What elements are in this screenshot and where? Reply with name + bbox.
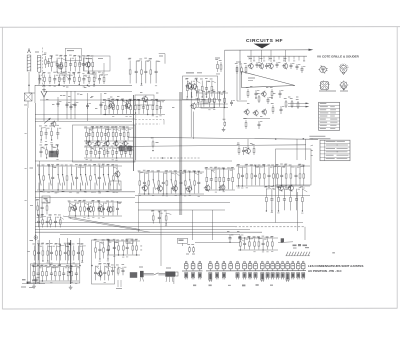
loopstick coil band bbox=[286, 252, 288, 256]
tube row baseline bbox=[182, 270, 203, 272]
input block box bbox=[135, 95, 154, 105]
wire bus y229 bbox=[35, 229, 250, 231]
AF band left bbox=[37, 164, 122, 193]
tube V14 bbox=[272, 261, 274, 263]
right sub lower bbox=[264, 186, 307, 214]
transistor Q1 bbox=[249, 64, 254, 69]
svg-text:CIRCUITS HF: CIRCUITS HF bbox=[246, 38, 283, 44]
HF mid parts bbox=[246, 86, 284, 104]
table area stubs bbox=[311, 139, 314, 156]
tube V16 bbox=[282, 261, 284, 263]
bottom left feeder parts bbox=[32, 243, 85, 264]
top band labels bbox=[52, 87, 214, 110]
dot j3 bbox=[162, 157, 164, 159]
pictogram P4 bbox=[341, 82, 347, 88]
tube V2 bbox=[192, 261, 194, 263]
left long wire x27 bbox=[27, 108, 29, 283]
wire bus y107 bbox=[196, 103, 228, 105]
socket S6 bbox=[222, 273, 225, 278]
table legend bbox=[320, 140, 350, 161]
page bottom edge bbox=[2, 307, 397, 310]
left margin labels bbox=[30, 168, 34, 169]
wire vert x161drop bbox=[160, 210, 162, 266]
I1 feet bbox=[117, 280, 119, 287]
cluster I1 upper bbox=[107, 239, 140, 258]
wire top left junction bbox=[29, 92, 35, 94]
wire HF top feed bbox=[225, 49, 309, 51]
dot j1 bbox=[275, 138, 277, 140]
wire vert x67 bbox=[66, 91, 68, 119]
feeder verticals bbox=[38, 238, 80, 264]
osc cap branch bbox=[223, 100, 235, 127]
socket S1 bbox=[185, 273, 188, 278]
wire vert x58 bbox=[57, 97, 59, 121]
left col lower2 bbox=[37, 214, 64, 227]
mixer out box bbox=[201, 101, 214, 108]
wire osc out bbox=[195, 241, 240, 243]
wire vert x193 bbox=[192, 112, 194, 140]
left col parts2 bbox=[40, 144, 59, 160]
small text above tables bbox=[319, 91, 336, 92]
bottom gnd2 bbox=[70, 285, 72, 287]
tube V20 bbox=[302, 261, 304, 263]
IF block row2 bbox=[84, 145, 134, 161]
wire bus y203 bbox=[135, 202, 230, 204]
left small box bbox=[42, 196, 50, 203]
HF bottom parts bbox=[243, 103, 284, 129]
wire vert x212drop bbox=[212, 210, 214, 240]
left col parts bbox=[39, 125, 61, 143]
wire vert x39 bbox=[39, 161, 41, 284]
tube V15 bbox=[277, 261, 279, 263]
junction dots row bbox=[37, 264, 93, 266]
wire bus y197 bbox=[35, 197, 135, 199]
wire bus y222 bbox=[35, 222, 303, 224]
wire bus y234 bbox=[60, 234, 240, 236]
left tick marks bbox=[140, 245, 142, 248]
tube V18 bbox=[292, 261, 294, 263]
wire vert x224 feed bbox=[224, 50, 226, 104]
antenna bbox=[41, 91, 47, 97]
tone column bbox=[217, 61, 219, 64]
top section right parts bbox=[128, 58, 160, 86]
wire vert x191 bbox=[190, 92, 192, 137]
socket S5 bbox=[216, 273, 219, 278]
diamond part bbox=[34, 236, 38, 240]
crystal box bbox=[24, 93, 32, 101]
hf left resistors bbox=[235, 62, 247, 75]
tube V4 bbox=[209, 261, 211, 263]
wire bus y161 bbox=[35, 160, 232, 162]
slant wire 1 bbox=[63, 216, 140, 230]
wire vert x192drop bbox=[192, 210, 194, 240]
wire vert x275 drop bbox=[275, 185, 277, 223]
chassis connector bbox=[140, 271, 144, 277]
arrow under title bbox=[254, 44, 271, 49]
wire vert x75 bbox=[74, 91, 76, 119]
terminal cluster BL bbox=[21, 277, 45, 288]
IF block row1 bbox=[84, 126, 133, 144]
arrowhead right bbox=[309, 49, 314, 51]
wire bus y232 bbox=[35, 231, 262, 233]
transistor Q3 bbox=[269, 64, 274, 69]
tube V7 bbox=[230, 261, 232, 263]
bottom left box parts bbox=[32, 264, 80, 284]
HF caps row bbox=[256, 62, 306, 73]
HF right cluster bbox=[284, 97, 310, 110]
socket S18 bbox=[291, 273, 294, 278]
svg-text:AU POSITION - PW - R.C: AU POSITION - PW - R.C bbox=[308, 269, 342, 273]
LM labels bbox=[293, 245, 297, 247]
tube V3 bbox=[199, 261, 201, 263]
second AF row bbox=[68, 200, 122, 219]
socket S8 bbox=[236, 273, 239, 278]
I1 dark blob bbox=[130, 272, 137, 278]
tube V12 bbox=[261, 261, 263, 263]
loop antenna bbox=[28, 50, 31, 54]
wire vert x71 bbox=[70, 91, 72, 119]
wire y242 bbox=[278, 241, 293, 244]
socket S20 bbox=[302, 273, 305, 278]
IF coupler part bbox=[151, 138, 159, 152]
wire bus y158 bbox=[150, 157, 200, 159]
tube V11 bbox=[255, 261, 257, 263]
pot arrow left bbox=[44, 119, 50, 124]
slant wire 2 bbox=[70, 219, 150, 233]
socket S12 tall bbox=[261, 273, 264, 281]
tube V8 bbox=[237, 261, 239, 263]
tube V1 bbox=[185, 261, 187, 263]
wire vert x297 bbox=[297, 192, 299, 231]
vert x138 bbox=[138, 196, 140, 232]
socket S13 bbox=[266, 273, 269, 278]
cluster I1 lower bbox=[111, 264, 126, 275]
socket S14 bbox=[271, 273, 274, 278]
wire vert x44 bbox=[43, 97, 45, 121]
wire vert x133 heavy bbox=[133, 95, 135, 171]
AF band left labels bbox=[40, 191, 116, 193]
svg-text:LES CONDENSATEURS SONT AJUSTES: LES CONDENSATEURS SONT AJUSTES bbox=[308, 264, 363, 268]
top box edge bbox=[159, 53, 165, 55]
socket S3 bbox=[198, 273, 201, 278]
IF block border bbox=[73, 125, 136, 162]
wire bus y100 bbox=[40, 99, 200, 101]
HF feed stubs bbox=[249, 56, 305, 61]
left col circle bbox=[52, 122, 56, 126]
socket S17 tall bbox=[286, 273, 289, 281]
osc resistors bbox=[186, 244, 195, 255]
wire vert x240 bbox=[239, 50, 241, 100]
volume pot heavy bbox=[70, 240, 72, 284]
AF band left box bbox=[110, 181, 121, 190]
wire top y91 bbox=[44, 91, 132, 93]
pictogram P1 bbox=[320, 66, 327, 73]
I1 box bbox=[126, 239, 133, 243]
wire vert x35 bbox=[35, 103, 37, 284]
wire vert x297 upper bbox=[296, 139, 298, 160]
socket lower marks bbox=[193, 284, 273, 286]
det transistor group bbox=[237, 139, 255, 155]
mixer cluster bbox=[190, 91, 228, 110]
page top edge bbox=[0, 26, 400, 29]
top section row1 bbox=[50, 55, 94, 75]
socket S2 bbox=[191, 273, 194, 278]
wire bus y226 bbox=[35, 226, 235, 228]
tube V13 bbox=[267, 261, 269, 263]
pictogram P3 bbox=[321, 82, 329, 90]
wire vert x135b bbox=[135, 112, 137, 160]
sub-block parts bbox=[185, 78, 216, 100]
wire vert x101 bbox=[100, 93, 102, 115]
diode D1 bbox=[281, 238, 284, 242]
detector triangle bbox=[242, 72, 296, 88]
tube V9 bbox=[244, 261, 246, 263]
input block row bbox=[103, 95, 165, 117]
oscillator box bbox=[178, 238, 188, 243]
left top parts bbox=[43, 53, 52, 69]
dot j2 bbox=[303, 138, 305, 140]
socket S4 tall bbox=[209, 273, 212, 281]
table resistances bbox=[319, 102, 340, 130]
bottom cluster I4 bbox=[238, 236, 278, 253]
ground left bbox=[43, 88, 45, 90]
legend header text bbox=[309, 135, 325, 138]
left col lower bbox=[36, 199, 51, 218]
HF top wire bbox=[247, 55, 307, 57]
cluster circle bbox=[98, 272, 102, 276]
page left edge bbox=[1, 27, 3, 309]
mid lower parts bbox=[151, 210, 171, 226]
wire bus y119 bbox=[35, 118, 135, 120]
bottom right cluster parts bbox=[93, 239, 111, 262]
dashed vert x42 bbox=[42, 48, 44, 88]
wire vert x87 bbox=[87, 93, 89, 121]
AF band mid bbox=[138, 170, 225, 197]
socket S9 bbox=[243, 273, 246, 278]
HF block outline bbox=[236, 67, 238, 101]
coil L2 bbox=[36, 56, 38, 73]
wire bus y114 bbox=[35, 114, 135, 116]
wire vert x181b bbox=[181, 92, 183, 215]
right shield box bbox=[92, 240, 115, 284]
wire bus y139 bbox=[128, 137, 318, 139]
wire bus y210 bbox=[138, 209, 225, 211]
IF dark boxes bbox=[119, 146, 125, 151]
bottom left box bbox=[30, 264, 80, 283]
socket S19 bbox=[297, 273, 300, 278]
transistor Q2 bbox=[259, 64, 264, 69]
caps on feeders bbox=[46, 94, 104, 110]
svg-text:VU COTE GRILLE & SOUDER: VU COTE GRILLE & SOUDER bbox=[317, 55, 360, 59]
dark box left bbox=[49, 151, 58, 157]
tube V10 bbox=[249, 261, 251, 263]
socket S11 bbox=[254, 273, 257, 278]
transistor Q4 bbox=[283, 64, 288, 69]
bottom gnd1 bbox=[33, 284, 35, 286]
socket S10 bbox=[248, 273, 251, 278]
page right edge bbox=[396, 27, 398, 309]
tube V19 bbox=[297, 261, 299, 263]
tube V17 bbox=[287, 261, 289, 263]
AF band mid right bbox=[205, 167, 235, 193]
osc vert parts bbox=[227, 231, 243, 242]
socket S15 bbox=[276, 273, 279, 278]
IF dashed corner bbox=[135, 119, 164, 121]
right section box bbox=[276, 149, 312, 185]
wire vert x305 bbox=[305, 139, 307, 160]
IF row circles bbox=[86, 140, 128, 147]
top section row2 bbox=[38, 72, 108, 88]
bottom right cluster parts2 bbox=[94, 263, 112, 283]
top bus y85 bbox=[35, 84, 132, 86]
wire bus y121 bbox=[35, 121, 132, 123]
socket S16 bbox=[281, 273, 284, 278]
top chaos wires bbox=[52, 60, 104, 80]
AF band right bbox=[236, 164, 310, 192]
top boxes bbox=[65, 48, 81, 61]
ground g223 bbox=[223, 127, 225, 129]
wire bus y146 bbox=[128, 145, 306, 147]
dot j4 bbox=[170, 157, 172, 159]
tube V6 bbox=[223, 261, 225, 263]
tiny mark right bbox=[332, 252, 335, 253]
sub-block 182 bbox=[183, 76, 218, 100]
wire bus y192 bbox=[35, 191, 135, 193]
tube V5 bbox=[216, 261, 218, 263]
wire vert x180 heavy bbox=[179, 92, 181, 215]
wire bus y195 bbox=[135, 195, 310, 197]
pictogram P2 bbox=[340, 66, 347, 73]
